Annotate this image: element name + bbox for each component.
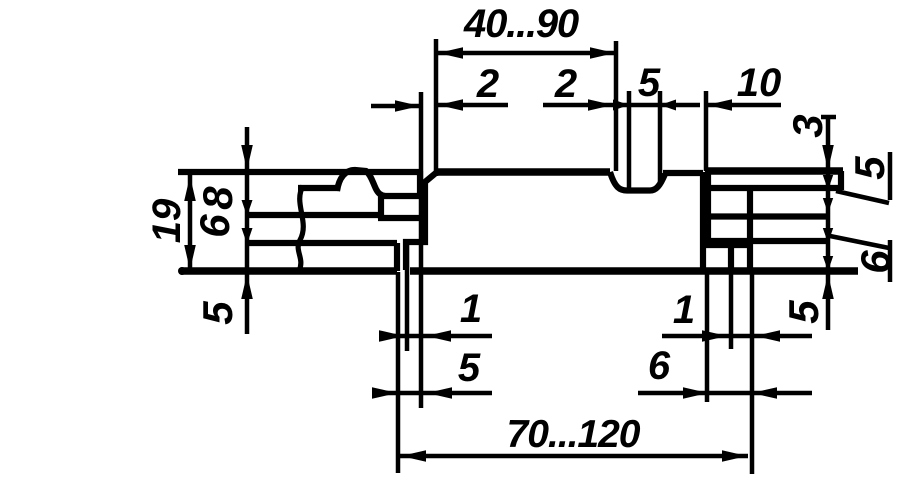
svg-text:5: 5 (458, 346, 481, 390)
extension line x436 (434, 39, 439, 176)
dimension 6 right underline (888, 240, 893, 282)
dimension 2 left tail line (371, 104, 420, 109)
svg-text:5: 5 (780, 300, 827, 324)
extension line x660 (658, 91, 663, 184)
dimension 19 line (188, 174, 193, 272)
right board line y188 (708, 185, 838, 191)
svg-text:3: 3 (784, 114, 831, 137)
centre board top right surface (663, 170, 703, 176)
right board line y238 (709, 238, 830, 244)
svg-text:70...120: 70...120 (507, 413, 641, 456)
left board groove line y215 (248, 212, 381, 218)
right board groove face x731 (728, 241, 734, 271)
x828 arrow at y190 (823, 175, 833, 190)
dimension 2 right line (543, 103, 613, 108)
left board edge bump (337, 170, 385, 196)
left board step face (378, 196, 384, 219)
dimension 19 bottom arrow (184, 245, 196, 270)
dimension 5 right top underline (888, 152, 893, 200)
dimension chain line x828 (826, 116, 831, 330)
dimension 40...90 right arrow (590, 47, 615, 59)
left board ogee shoulder line (298, 185, 338, 191)
dimension 1 right line (662, 334, 812, 339)
svg-text:6: 6 (648, 344, 671, 388)
extension line x398 lower (396, 272, 401, 473)
right board line y215 (709, 213, 830, 219)
dimension 2 left arrow (395, 100, 420, 112)
dimension chain line x247 (245, 127, 250, 334)
dimension 2 right arrow (588, 99, 613, 111)
x247 arrow onto top surface (241, 145, 253, 170)
dimension 19 top arrow (184, 176, 196, 201)
dimension 1 left outer arrow (379, 330, 404, 342)
extension line x731 lower (729, 272, 734, 349)
extension line x421 (419, 92, 424, 408)
dimension 1 right outer arrow (702, 330, 727, 342)
right board groove face x750 (747, 187, 753, 271)
dimension 5 bottom left inner arrow (427, 387, 452, 399)
left board rebate mid line (383, 193, 420, 199)
dimension 40...90 left arrow (438, 47, 463, 59)
x828 arrow at y213 (823, 198, 833, 213)
left board bottom surface (181, 267, 397, 275)
svg-text:1: 1 (460, 287, 482, 331)
dimension 5 top right arrow (660, 100, 676, 111)
x828 down arrow onto bottom (823, 256, 833, 271)
dimension 40...90 line (437, 51, 616, 56)
dimension 2 inner arrow (438, 99, 463, 111)
dimension 1 left line (379, 334, 492, 339)
dimension 1 right inner arrow (755, 330, 780, 342)
dimension 5 right top leader (836, 191, 889, 203)
centre board left profile steps (406, 172, 437, 270)
dimension 6 right line (638, 391, 812, 396)
left board step bottom line (378, 215, 425, 221)
left board step inner face (417, 171, 423, 197)
dimension 5 bottom left outer arrow (372, 387, 397, 399)
dimension 5 top line (613, 103, 700, 108)
dimension 5 top left arrow (613, 100, 629, 111)
extension line x752 lower (750, 272, 755, 474)
dimension 1 left inner arrow (426, 330, 451, 342)
dimension 5 bottom left line (374, 391, 492, 396)
dimension 2 inner line (437, 103, 508, 108)
x247 arrow at y216 (242, 200, 253, 216)
x247 arrow at y244 (242, 228, 253, 244)
right board broken end (838, 171, 844, 190)
centre board cove groove (610, 172, 665, 191)
left board break line (298, 186, 303, 271)
dimension 70...120 line (400, 454, 748, 459)
right board top surface (706, 167, 843, 175)
left board bottom end dot (178, 267, 186, 275)
dimension 10 line (706, 103, 781, 108)
left board lower right face (394, 243, 400, 271)
svg-text:10: 10 (737, 61, 782, 105)
svg-text:5: 5 (846, 156, 893, 180)
centre board top surface (434, 168, 610, 176)
right board ledge y245 (703, 242, 748, 248)
svg-text:40...90: 40...90 (463, 2, 579, 46)
x828 top stub (821, 115, 836, 120)
dimension 70...120 left arrow (401, 450, 426, 462)
svg-text:19: 19 (145, 198, 189, 243)
extension line x616 (614, 41, 619, 171)
right board left face (705, 171, 711, 246)
svg-text:8: 8 (194, 186, 241, 210)
left board top surface (178, 169, 421, 175)
centre board bottom surface (410, 267, 858, 275)
dimension 6 right outer arrow (683, 387, 708, 399)
dimension 70...120 right arrow (722, 450, 747, 462)
x828 arrow at y243 (823, 228, 833, 243)
svg-text:5: 5 (194, 301, 241, 325)
svg-text:2: 2 (554, 62, 577, 106)
dimension 10 arrow (707, 99, 732, 111)
centre board right face (700, 172, 706, 270)
left board groove line y243 (248, 240, 397, 246)
extension line x707 lower (705, 272, 710, 402)
svg-text:6: 6 (191, 214, 238, 238)
x247 up arrow below bottom (241, 274, 253, 299)
svg-text:2: 2 (476, 62, 499, 106)
x828 up arrow below bottom (822, 274, 834, 299)
svg-text:5: 5 (638, 61, 661, 105)
x828 arrow onto top surface (822, 145, 834, 170)
svg-text:1: 1 (673, 288, 695, 332)
dimension 6 right leader (830, 236, 889, 248)
extension line x706 upper (704, 91, 709, 171)
extension line x407 lower (405, 244, 410, 351)
extension line x629 (627, 91, 632, 190)
dimension 6 right inner arrow (752, 387, 777, 399)
